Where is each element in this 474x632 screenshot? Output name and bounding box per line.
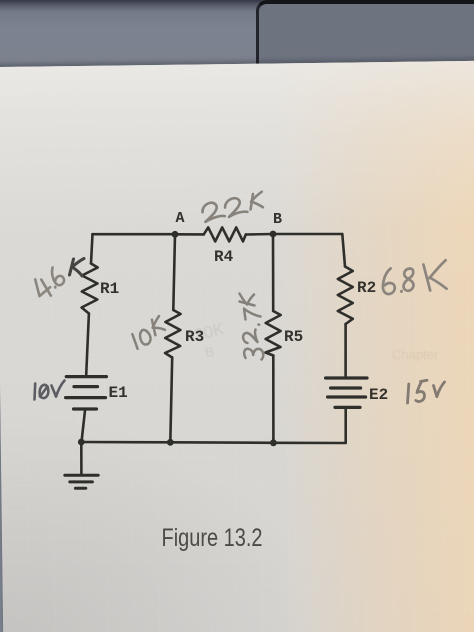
handwritten 6.8K at R2	[381, 260, 449, 295]
resistor R2	[338, 267, 353, 325]
ground	[65, 475, 98, 488]
svg-text:E2: E2	[369, 386, 388, 404]
wire bottom: A branch to ground junction	[81, 441, 170, 444]
wire top left: corner to node A	[93, 233, 176, 236]
svg-text:R5: R5	[284, 328, 303, 346]
resistor R4	[204, 227, 246, 241]
wire: ground stem	[80, 442, 83, 475]
wire left branch top	[91, 234, 93, 263]
svg-text:Chapter: Chapter	[392, 347, 439, 362]
junction dot bottom A branch	[167, 439, 174, 446]
wire: A branch vertical	[173, 234, 175, 310]
wire: E2 to bottom right corner	[273, 409, 345, 444]
svg-text:B: B	[273, 211, 282, 228]
battery E2	[326, 378, 367, 407]
handwritten 10V at E1	[35, 381, 65, 400]
handwritten 32.7K at R5 (vertical)	[240, 294, 264, 360]
node A junction dot	[172, 231, 179, 238]
wire: R1 to battery E1	[86, 314, 89, 376]
svg-text:R3: R3	[185, 328, 204, 346]
wire: node B to top right corner	[273, 233, 342, 236]
ghost bleed-through text near R3/R5	[192, 319, 227, 360]
wire: R3 to bottom	[170, 358, 172, 443]
junction dot bottom left	[78, 439, 85, 446]
wire: E1 to ground junction	[82, 411, 86, 443]
resistor R3	[165, 310, 181, 358]
wire: R2 to battery E2	[344, 324, 347, 377]
svg-text:E1: E1	[109, 384, 128, 402]
wire: R4 to node B	[246, 233, 273, 236]
resistor R1	[82, 264, 98, 314]
handwritten 4.6K at R1	[29, 259, 84, 302]
handwritten 15V at E2	[408, 380, 445, 403]
svg-text:A: A	[176, 210, 185, 227]
svg-text:Figure 13.2: Figure 13.2	[162, 524, 263, 552]
wire: B branch vertical	[272, 234, 275, 311]
svg-text:R1: R1	[100, 280, 119, 298]
wire top: node A to R4	[175, 233, 204, 236]
svg-text:R2: R2	[357, 279, 376, 297]
handwritten 22K above R4	[201, 192, 265, 222]
junction dot bottom B branch	[270, 439, 277, 446]
handwritten 10K at R3	[129, 316, 168, 349]
wire: R5 to bottom	[272, 356, 275, 443]
wire bottom: B branch to A branch	[170, 441, 273, 444]
node B junction dot	[270, 231, 277, 238]
resistor R5	[266, 311, 281, 356]
battery E1	[66, 377, 107, 409]
wire right branch upper	[342, 234, 345, 267]
svg-text:R4: R4	[214, 248, 234, 266]
svg-text:B: B	[204, 344, 215, 360]
